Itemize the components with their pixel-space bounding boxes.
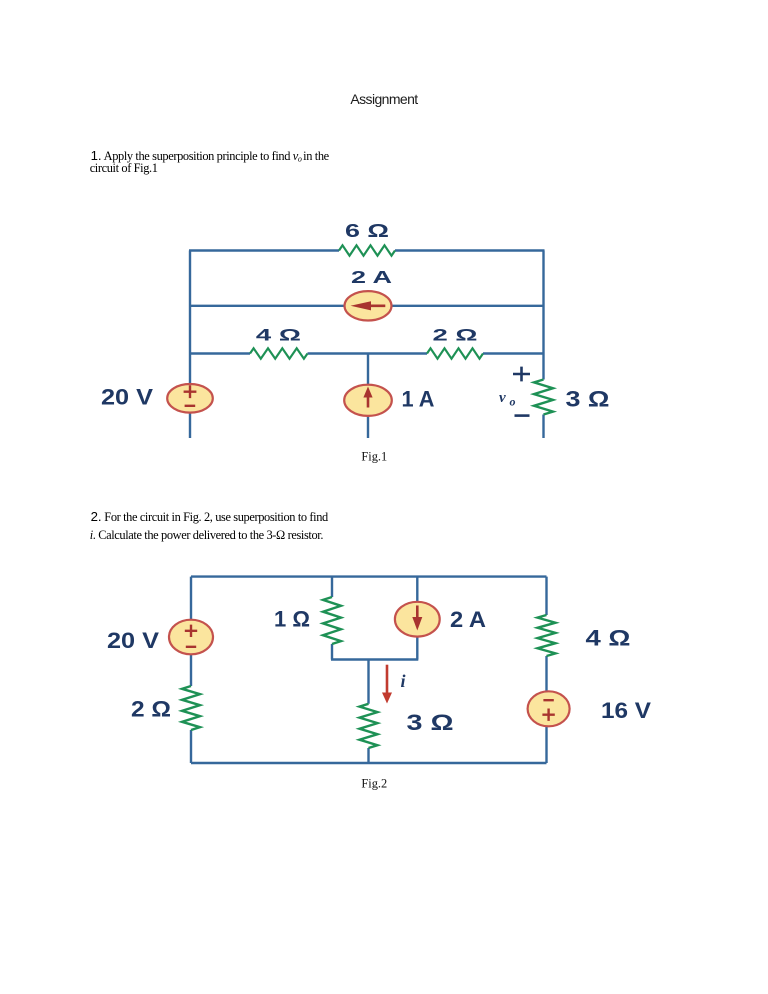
- svg-text:2 A: 2 A: [450, 607, 486, 632]
- voltage source 20 V (Fig.1, + on top): [167, 384, 213, 413]
- wire: Fig.1 left rail: [189, 251, 191, 439]
- wire: Fig.1 middle branch (third rail to bottom, through 1A source): [367, 354, 369, 439]
- current source 2A (Fig.2, arrow pointing down): [395, 602, 440, 637]
- current source 1A (Fig.1, arrow pointing up): [344, 385, 392, 416]
- svg-text:20 V: 20 V: [101, 385, 153, 410]
- svg-text:6 Ω: 6 Ω: [345, 221, 389, 241]
- wire: Fig.2 1-ohm branch vertical: [331, 577, 333, 660]
- resistor 3 ohm (Fig.1, on right rail): [534, 380, 553, 415]
- svg-text:i: i: [400, 671, 405, 691]
- resistor 2 ohm (Fig.1): [427, 348, 483, 358]
- title: Assignment: [0, 92, 768, 106]
- label - (polarity of vo): [515, 414, 530, 417]
- svg-text:v: v: [499, 390, 506, 406]
- wire: Fig.2 middle branch (bar to bottom, through 3-ohm): [367, 660, 369, 764]
- svg-text:20 V: 20 V: [107, 628, 159, 653]
- svg-text:3 Ω: 3 Ω: [566, 387, 610, 412]
- svg-text:4 Ω: 4 Ω: [586, 626, 631, 651]
- svg-text:1 Ω: 1 Ω: [274, 606, 310, 631]
- resistor 1 ohm (Fig.2): [323, 597, 341, 644]
- problem 1 text, line 1: [91, 150, 329, 166]
- wire: Fig.1 middle rail (through 2A source): [189, 305, 545, 307]
- svg-text:o: o: [510, 395, 516, 409]
- problem 1 text, line 2: [90, 162, 158, 174]
- wire: Fig.2 right rail (through 4-ohm and 16V source): [545, 577, 547, 763]
- wire: Fig.1 right rail (gap at 3-ohm): [542, 251, 544, 439]
- resistor 6 ohm (Fig.1 top rail): [339, 245, 395, 255]
- svg-text:2 A: 2 A: [351, 267, 393, 287]
- current arrow i (Fig.2, red, pointing down): [382, 665, 392, 704]
- wire: Fig.2 bar joining 1-ohm and 2A branches: [331, 658, 418, 660]
- resistor 3 ohm (Fig.2): [360, 704, 378, 748]
- svg-text:Fig.2: Fig.2: [361, 776, 387, 790]
- wire: Fig.2 2A branch vertical: [416, 577, 418, 660]
- wire: Fig.2 top rail: [191, 575, 547, 577]
- current source 2A (Fig.1, arrow pointing left): [345, 291, 392, 320]
- svg-text:1 A: 1 A: [402, 387, 435, 412]
- wire: Fig.2 left rail (through 20V source and 2-ohm): [190, 577, 192, 763]
- wire: Fig.2 bottom rail: [191, 762, 547, 764]
- svg-text:2 Ω: 2 Ω: [433, 326, 478, 344]
- problem 2 text, line 2: [90, 529, 323, 541]
- voltage source 20 V (Fig.2, + on top): [169, 620, 213, 655]
- resistor 2 ohm (Fig.2, left rail): [182, 686, 200, 730]
- voltage source 16 V (Fig.2, - on top / + below): [528, 691, 570, 726]
- label + (polarity of vo): [513, 367, 530, 382]
- svg-text:3 Ω: 3 Ω: [407, 710, 454, 735]
- wire: Fig.1 top rail (around 6-ohm): [189, 249, 545, 251]
- problem 2 text, line 1: [91, 511, 328, 523]
- wire: Fig.1 third rail (through 4-ohm and 2-ohm): [189, 352, 545, 354]
- resistor 4 ohm (Fig.2): [538, 615, 556, 656]
- svg-text:2 Ω: 2 Ω: [131, 697, 171, 722]
- svg-text:16 V: 16 V: [601, 698, 651, 723]
- svg-text:4 Ω: 4 Ω: [256, 326, 301, 344]
- svg-text:Fig.1: Fig.1: [361, 449, 387, 463]
- resistor 4 ohm (Fig.1): [250, 348, 308, 358]
